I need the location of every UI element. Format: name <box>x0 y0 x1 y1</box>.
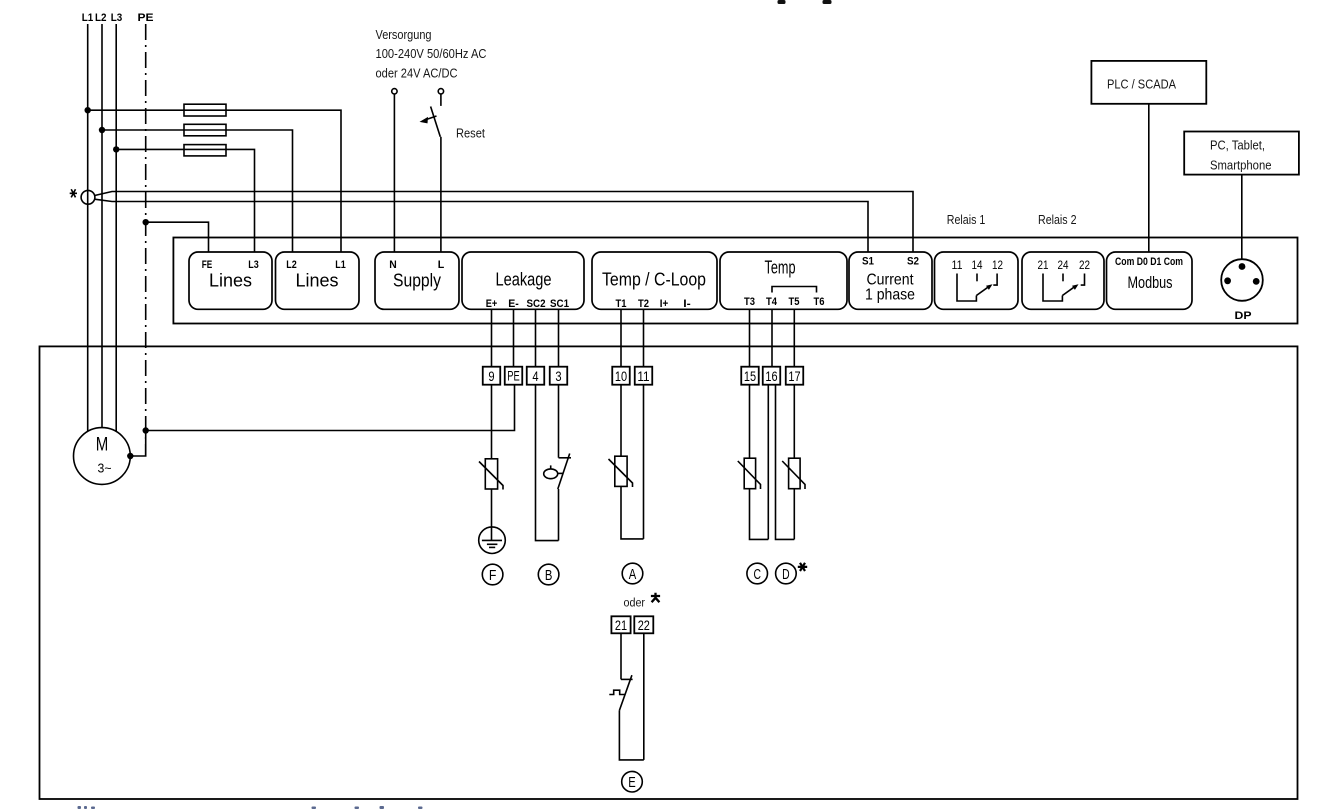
svg-text:T6: T6 <box>814 296 825 308</box>
terminal square PE <box>505 367 523 385</box>
earth bar long <box>482 539 502 541</box>
terminal box Temp / C-Loop (T1 T2 I+ I-) <box>592 252 717 309</box>
svg-text:16: 16 <box>765 369 777 384</box>
terminal square 16 <box>763 367 781 385</box>
svg-text:E-: E- <box>508 298 519 310</box>
wire PC to DP <box>1241 175 1243 260</box>
svg-text:N: N <box>389 259 397 271</box>
svg-text:22: 22 <box>638 618 650 633</box>
sensor B right wire lower <box>558 489 560 541</box>
box PLC / SCADA <box>1091 61 1206 104</box>
wire PLC to Modbus <box>1148 104 1150 253</box>
svg-text:L: L <box>438 259 445 271</box>
svg-text:SC2: SC2 <box>527 298 546 310</box>
wire SC2 to terminal 4 <box>535 309 537 366</box>
svg-text:4: 4 <box>532 369 539 384</box>
wire CT secondary lower to S1 <box>95 199 868 252</box>
svg-text:Modbus: Modbus <box>1128 273 1173 292</box>
label circle E <box>622 771 643 792</box>
svg-text:FE: FE <box>202 259 213 271</box>
svg-text:21: 21 <box>615 618 627 633</box>
wire supply L upper <box>440 94 442 106</box>
svg-text:11: 11 <box>952 258 963 272</box>
wire PE to terminal FE <box>146 222 209 252</box>
machine area box <box>40 346 1298 799</box>
terminal square 9 <box>483 367 501 385</box>
wire T1 to terminal 10 <box>620 309 622 366</box>
sensor B left wire <box>536 385 559 541</box>
terminal box Leakage (E+ E- SC2 SC1) <box>462 252 584 309</box>
terminal box Modbus (Com D0 D1 Com) <box>1107 252 1193 309</box>
junction PE drop <box>143 427 149 433</box>
svg-text:T4: T4 <box>766 296 778 308</box>
svg-text:A: A <box>629 567 637 583</box>
sensor E left wire upper <box>620 633 622 679</box>
svg-text:Temp: Temp <box>765 258 796 278</box>
sensor A thermistor body <box>615 456 627 486</box>
earth bar middle <box>487 543 498 545</box>
svg-text:12: 12 <box>992 258 1003 272</box>
terminal square 17 <box>786 367 804 385</box>
svg-text:24: 24 <box>1058 258 1069 272</box>
sensor B right wire upper <box>558 385 560 458</box>
svg-text:L1: L1 <box>82 12 94 24</box>
wire L2 to terminal L2 <box>102 130 293 252</box>
sensor D right wire upper <box>793 385 795 459</box>
cut-off heading glyph bottoms <box>778 0 786 4</box>
wire PE vertical dash-dot <box>145 24 147 456</box>
svg-text:L2: L2 <box>286 259 297 271</box>
asterisk at CT <box>70 189 77 197</box>
label circle C <box>747 563 768 584</box>
sensor C left wire lower + bottom <box>750 489 769 540</box>
reset switch blade <box>431 107 441 137</box>
wire E+ to terminal 9 <box>491 309 493 366</box>
svg-text:Reset: Reset <box>456 126 485 141</box>
fuse F3 <box>184 145 226 156</box>
svg-text:T5: T5 <box>789 296 800 308</box>
terminal square 22 <box>634 616 653 633</box>
label circle D <box>776 563 797 584</box>
svg-text:S1: S1 <box>862 256 874 268</box>
wire L2 vertical <box>101 24 103 428</box>
relay 2 contact symbol <box>1043 274 1062 302</box>
wire T2 to terminal 11 <box>643 309 645 366</box>
svg-text:I+: I+ <box>660 298 669 310</box>
sensor B blade <box>558 454 570 490</box>
svg-text:S2: S2 <box>907 256 919 268</box>
sensor C left wire upper <box>749 385 751 459</box>
svg-text:T2: T2 <box>638 298 649 310</box>
junction L1 tap <box>85 107 91 113</box>
sensor E right wire <box>643 633 645 760</box>
svg-text:E: E <box>628 775 636 791</box>
wire SC1 to terminal 3 <box>558 309 560 366</box>
sensor D thermistor body <box>789 458 801 489</box>
sensor E left wire lower + bottom <box>619 710 643 760</box>
wire supply N <box>393 94 395 252</box>
svg-text:PE: PE <box>507 368 520 383</box>
svg-text:Com D0 D1 Com: Com D0 D1 Com <box>1115 256 1183 268</box>
sensor A left wire upper <box>620 385 622 457</box>
svg-text:PLC / SCADA: PLC / SCADA <box>1107 77 1176 92</box>
sensor F wire lower <box>491 489 493 540</box>
svg-text:10: 10 <box>615 369 627 384</box>
svg-text:22: 22 <box>1079 258 1090 272</box>
sensor E contact nub <box>621 678 633 680</box>
svg-text:M: M <box>96 435 109 456</box>
svg-text:Supply: Supply <box>393 271 441 291</box>
DP pin right <box>1253 278 1260 285</box>
earth bar short <box>489 546 495 548</box>
sensor B float stub <box>550 465 552 469</box>
terminal square 10 <box>612 367 630 385</box>
sensor C thermistor strike <box>738 461 761 489</box>
current transformer CT circle <box>81 190 95 204</box>
svg-text:B: B <box>545 568 553 584</box>
relay 1 contact symbol <box>957 274 976 302</box>
sensor A left wire lower + bottom <box>621 486 644 539</box>
terminal box Supply (N L) <box>375 252 459 309</box>
sensor A right wire <box>643 385 645 539</box>
wire L3 to terminal L3 <box>116 149 254 252</box>
svg-text:Relais 2: Relais 2 <box>1038 212 1077 227</box>
svg-text:14: 14 <box>972 258 983 272</box>
svg-text:C: C <box>753 567 761 583</box>
sensor D thermistor strike <box>782 461 805 489</box>
svg-text:17: 17 <box>788 369 800 384</box>
sensor B float ellipse <box>544 469 558 479</box>
svg-text:L3: L3 <box>111 12 123 24</box>
sensor C right wire <box>767 385 769 540</box>
terminal circle L <box>438 89 443 94</box>
terminal square 21 <box>611 616 630 633</box>
svg-text:PE: PE <box>138 12 154 24</box>
sensor D left wire <box>776 385 795 540</box>
DP pin left <box>1224 277 1231 284</box>
svg-text:Relais 1: Relais 1 <box>947 212 986 227</box>
sensor D right wire lower <box>793 489 795 540</box>
svg-text:Versorgung: Versorgung <box>376 27 432 42</box>
svg-text:PC, Tablet,: PC, Tablet, <box>1210 138 1265 153</box>
svg-text:100-240V 50/60Hz AC: 100-240V 50/60Hz AC <box>376 46 487 61</box>
sensor E actuator <box>609 690 625 694</box>
earth symbol circle <box>479 527 506 554</box>
junction motor PE <box>127 453 133 459</box>
sensor C thermistor body <box>744 458 755 489</box>
wire L3 vertical <box>115 24 117 432</box>
asterisk after oder <box>651 593 660 602</box>
svg-text:3: 3 <box>555 369 561 384</box>
sensor F thermistor strike <box>479 462 503 490</box>
terminal box Relais 1 (11 14 12) <box>935 252 1019 309</box>
label circle A <box>622 563 643 584</box>
motor M 3~ <box>74 428 131 485</box>
svg-text:1 phase: 1 phase <box>865 287 915 304</box>
label circle F <box>482 564 503 585</box>
terminal box Lines (FE L3) <box>189 252 272 309</box>
svg-text:F: F <box>489 568 497 584</box>
wire T3 to terminal 15 <box>749 309 751 366</box>
terminal box Current 1 phase (S1 S2) <box>849 252 932 309</box>
wire T4 to terminal 16 <box>771 309 773 366</box>
svg-text:T1: T1 <box>616 298 627 310</box>
wire supply L lower <box>440 137 442 252</box>
svg-text:DP: DP <box>1235 310 1252 322</box>
connector DP circle <box>1221 259 1263 301</box>
sensor F wire upper <box>491 385 493 459</box>
svg-text:Temp / C-Loop: Temp / C-Loop <box>602 270 706 290</box>
svg-text:L2: L2 <box>95 12 107 24</box>
svg-text:11: 11 <box>637 369 649 384</box>
svg-text:Leakage: Leakage <box>496 270 552 290</box>
box PC Tablet Smartphone <box>1184 132 1299 175</box>
junction PE tap <box>143 219 149 225</box>
svg-text:21: 21 <box>1038 258 1049 272</box>
fuse F1 <box>184 104 226 116</box>
svg-text:Smartphone: Smartphone <box>1210 158 1272 173</box>
cut-off caption glyph tops at bottom <box>78 806 423 809</box>
svg-text:SC1: SC1 <box>550 298 569 310</box>
wire T5 to terminal 17 <box>793 309 795 366</box>
svg-text:I-: I- <box>683 298 691 310</box>
DP pin top <box>1239 263 1246 270</box>
sensor A thermistor strike <box>609 459 633 487</box>
svg-text:3~: 3~ <box>98 461 112 476</box>
svg-text:E+: E+ <box>486 298 498 310</box>
terminal circle N <box>392 89 397 94</box>
sensor B contact nub <box>559 457 572 459</box>
fuse F2 <box>184 124 226 136</box>
svg-text:D: D <box>782 567 790 583</box>
sensor B float link <box>558 472 564 474</box>
svg-text:Lines: Lines <box>209 271 252 291</box>
bracket T4-T6 <box>772 287 817 293</box>
terminal square 11 <box>635 367 653 385</box>
asterisk after D <box>798 563 807 571</box>
terminal square 4 <box>527 367 545 385</box>
wire PE return to terminal PE <box>146 385 515 431</box>
terminal square 15 <box>741 367 759 385</box>
sensor F thermistor body <box>485 459 497 489</box>
svg-text:T3: T3 <box>744 296 755 308</box>
wire L1 vertical <box>87 24 89 431</box>
wire L1 to terminal L1 <box>88 110 341 252</box>
svg-text:oder 24V AC/DC: oder 24V AC/DC <box>376 66 458 81</box>
terminal box Lines (L2 L1) <box>276 252 360 309</box>
junction L2 tap <box>99 127 105 133</box>
svg-text:L3: L3 <box>248 259 259 271</box>
terminal box Temp (T3 T4 T5 T6) <box>720 252 847 309</box>
svg-text:15: 15 <box>744 369 756 384</box>
wire CT secondary upper to S2 <box>95 192 913 253</box>
svg-text:L1: L1 <box>335 259 346 271</box>
svg-text:Lines: Lines <box>296 271 339 291</box>
reset switch arrow <box>426 116 437 120</box>
terminal square 3 <box>550 367 568 385</box>
junction L3 tap <box>113 146 119 152</box>
main device box <box>173 238 1297 324</box>
wire motor PE link <box>130 431 145 457</box>
wire E- to terminal PE <box>513 309 515 366</box>
terminal box Relais 2 (21 24 22) <box>1022 252 1104 309</box>
svg-text:oder: oder <box>624 598 646 610</box>
svg-text:9: 9 <box>488 369 494 384</box>
label circle B <box>538 564 559 585</box>
sensor E blade <box>619 675 632 710</box>
